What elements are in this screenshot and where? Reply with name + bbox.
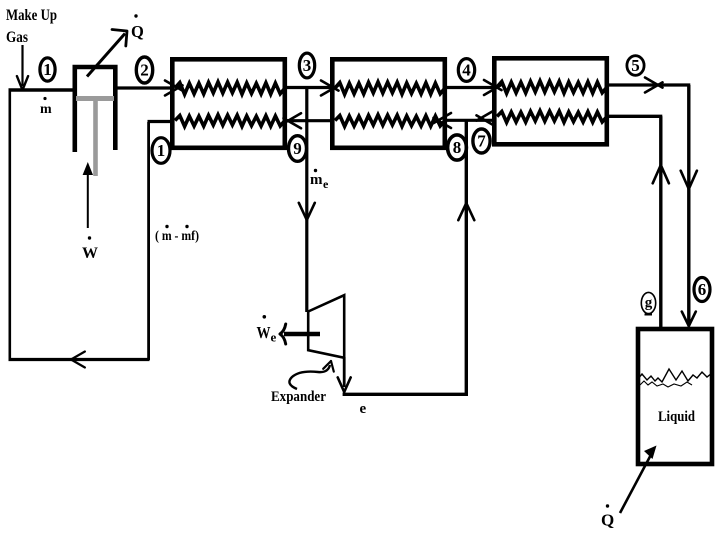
label Wdot bbox=[88, 236, 91, 239]
label Qdot bottom bbox=[606, 504, 609, 507]
node 6 bbox=[694, 278, 710, 302]
liquid receiver tank bbox=[638, 329, 712, 464]
node 5 bbox=[627, 56, 644, 76]
wire compressor outlet to HX1 bbox=[115, 86, 172, 89]
HX3 hot stream coil bbox=[497, 81, 607, 93]
arrow into HX1 hot side bbox=[165, 85, 183, 95]
svg-text:Expander: Expander bbox=[271, 389, 326, 405]
compressor cylinder bbox=[75, 67, 116, 152]
svg-text:8: 8 bbox=[453, 138, 462, 157]
svg-text:e: e bbox=[360, 401, 367, 417]
svg-text:Q: Q bbox=[131, 22, 144, 41]
wire return loop bottom horizontal bbox=[9, 358, 150, 361]
arrow Q heat leak into tank bbox=[620, 449, 654, 513]
arrow We work output bbox=[284, 332, 320, 336]
svg-text:Q: Q bbox=[601, 511, 614, 530]
svg-text:W: W bbox=[82, 245, 98, 262]
svg-text:Make Up: Make Up bbox=[6, 7, 57, 24]
arrow on m_e branch pointing down bbox=[299, 203, 307, 220]
arrow on exhaust riser pointing up bbox=[466, 203, 474, 220]
arrow Q heat rejection bbox=[87, 34, 125, 77]
arrow out of HX1 cold side (left) bbox=[284, 113, 302, 123]
svg-text:m: m bbox=[40, 102, 52, 117]
compressor piston rod (gray) bbox=[93, 100, 98, 176]
heat exchanger HX1 body bbox=[172, 59, 284, 148]
wire vapour return from tank (g) bbox=[659, 116, 662, 327]
node 2 (compressor outlet) bbox=[136, 57, 152, 83]
HX3 cold stream coil bbox=[497, 111, 607, 123]
arrow stream 6 mid pointing down bbox=[681, 171, 689, 189]
compressor piston (gray) bbox=[76, 96, 114, 101]
curved callout arrow to expander bbox=[289, 365, 330, 389]
svg-text:Gas: Gas bbox=[6, 29, 28, 46]
arrow into HX2 hot side bbox=[321, 85, 339, 95]
svg-text:4: 4 bbox=[462, 61, 471, 80]
arrow out of HX2 cold side (left) bbox=[434, 113, 452, 123]
svg-text:e: e bbox=[323, 177, 329, 191]
svg-text:g: g bbox=[645, 295, 653, 311]
HX1 cold stream coil bbox=[175, 115, 285, 127]
svg-text:e: e bbox=[271, 330, 277, 345]
turbine/expander body bbox=[308, 295, 344, 358]
svg-text:5: 5 bbox=[631, 56, 640, 75]
node 3 bbox=[299, 53, 314, 78]
arrow out of HX3 cold side (left) bbox=[477, 111, 495, 121]
node 1 (compressor inlet) bbox=[40, 58, 55, 81]
wire make-up inlet arrow bbox=[21, 45, 23, 86]
node 7 bbox=[473, 129, 490, 153]
svg-text:9: 9 bbox=[293, 139, 302, 158]
node g bbox=[641, 292, 655, 313]
wire return loop left vertical bbox=[9, 90, 12, 360]
svg-text:3: 3 bbox=[303, 56, 312, 75]
heat exchanger HX3 body bbox=[494, 58, 607, 144]
wire hot stream HX3 to liquefier bbox=[607, 83, 690, 86]
liquid surface wavy line bbox=[637, 369, 712, 382]
arrow vapour return pointing up bbox=[661, 165, 669, 183]
svg-text:2: 2 bbox=[140, 61, 149, 80]
label Qdot top bbox=[134, 14, 137, 17]
wire expander exhaust riser bbox=[465, 121, 468, 395]
HX2 hot stream coil bbox=[335, 82, 445, 94]
arrow W work input bbox=[87, 170, 89, 228]
label mdot_e bbox=[314, 169, 317, 172]
wire stream 6 down into liquid tank bbox=[687, 85, 690, 325]
arrowhead stream 6 at tank inlet bbox=[682, 312, 689, 326]
wire compressor inlet line bbox=[9, 88, 74, 91]
svg-text:6: 6 bbox=[698, 280, 707, 299]
label Wdot_e bbox=[263, 315, 267, 319]
svg-text:( m - mf): ( m - mf) bbox=[155, 229, 199, 244]
wire hot stream HX1 to HX2 bbox=[285, 86, 332, 89]
wire cold stream HX3 to HX2 bbox=[445, 119, 494, 122]
heat exchanger HX2 body bbox=[332, 59, 445, 148]
wire cold stream HX2 to HX1 bbox=[285, 119, 332, 122]
arrow on bottom loop pointing left bbox=[71, 352, 85, 360]
wire cold stream HX3 right elbow bbox=[607, 115, 662, 118]
arrow after node 5 pointing right bbox=[645, 82, 663, 92]
arrow into HX3 hot side bbox=[484, 85, 502, 95]
svg-text:Liquid: Liquid bbox=[658, 409, 695, 425]
wire expander exhaust horizontal (e) bbox=[343, 393, 468, 396]
node 9 bbox=[289, 136, 307, 162]
node 1 (cold return at HX1) bbox=[152, 138, 170, 164]
node 4 bbox=[458, 59, 474, 82]
wire expander outlet down bbox=[343, 357, 346, 387]
svg-text:7: 7 bbox=[477, 132, 486, 151]
svg-text:W: W bbox=[257, 323, 271, 342]
svg-text:m: m bbox=[310, 172, 323, 188]
wire m_e branch to expander bbox=[305, 87, 308, 312]
HX1 hot stream coil bbox=[175, 82, 285, 94]
svg-text:1: 1 bbox=[43, 60, 52, 79]
wire return riser to HX1 cold outlet bbox=[147, 122, 150, 360]
label mdot inlet bbox=[43, 97, 46, 100]
wire HX1 cold outlet elbow bbox=[148, 120, 173, 123]
svg-text:1: 1 bbox=[157, 141, 166, 160]
wire hot stream HX2 to HX3 bbox=[445, 86, 494, 89]
node 8 bbox=[448, 135, 467, 160]
HX2 cold stream coil bbox=[335, 115, 445, 127]
